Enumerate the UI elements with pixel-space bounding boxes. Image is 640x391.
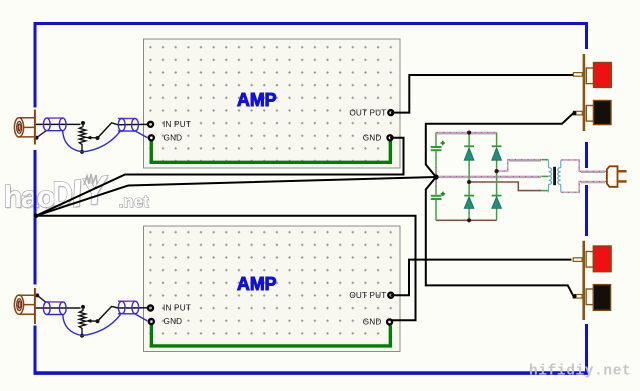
- svg-text:OUT PUT: OUT PUT: [349, 291, 386, 300]
- svg-text:GND: GND: [363, 133, 382, 142]
- svg-text:GND: GND: [164, 317, 183, 326]
- svg-text:hifidiy.net: hifidiy.net: [529, 364, 631, 380]
- svg-text:GND: GND: [363, 318, 382, 327]
- svg-text:IN PUT: IN PUT: [163, 304, 191, 313]
- svg-text:IN PUT: IN PUT: [163, 120, 191, 129]
- svg-text:.net: .net: [119, 192, 150, 211]
- svg-text:OUT PUT: OUT PUT: [349, 108, 386, 117]
- svg-text:GND: GND: [164, 133, 183, 142]
- svg-text:hao: hao: [4, 179, 55, 214]
- svg-text:AMP: AMP: [237, 89, 277, 110]
- svg-text:AMP: AMP: [237, 273, 277, 294]
